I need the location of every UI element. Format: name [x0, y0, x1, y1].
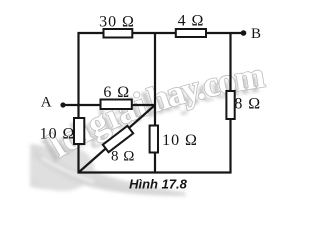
svg-text:Hình 17.8: Hình 17.8: [129, 177, 188, 192]
svg-text:A: A: [41, 95, 53, 111]
svg-text:8 Ω: 8 Ω: [234, 95, 261, 112]
svg-text:10 Ω: 10 Ω: [40, 126, 76, 143]
svg-text:B: B: [251, 26, 262, 42]
svg-text:30 Ω: 30 Ω: [99, 14, 135, 31]
svg-text:4 Ω: 4 Ω: [178, 13, 205, 30]
svg-text:6 Ω: 6 Ω: [103, 84, 130, 101]
svg-text:10 Ω: 10 Ω: [162, 132, 198, 149]
svg-text:8 Ω: 8 Ω: [111, 149, 135, 165]
